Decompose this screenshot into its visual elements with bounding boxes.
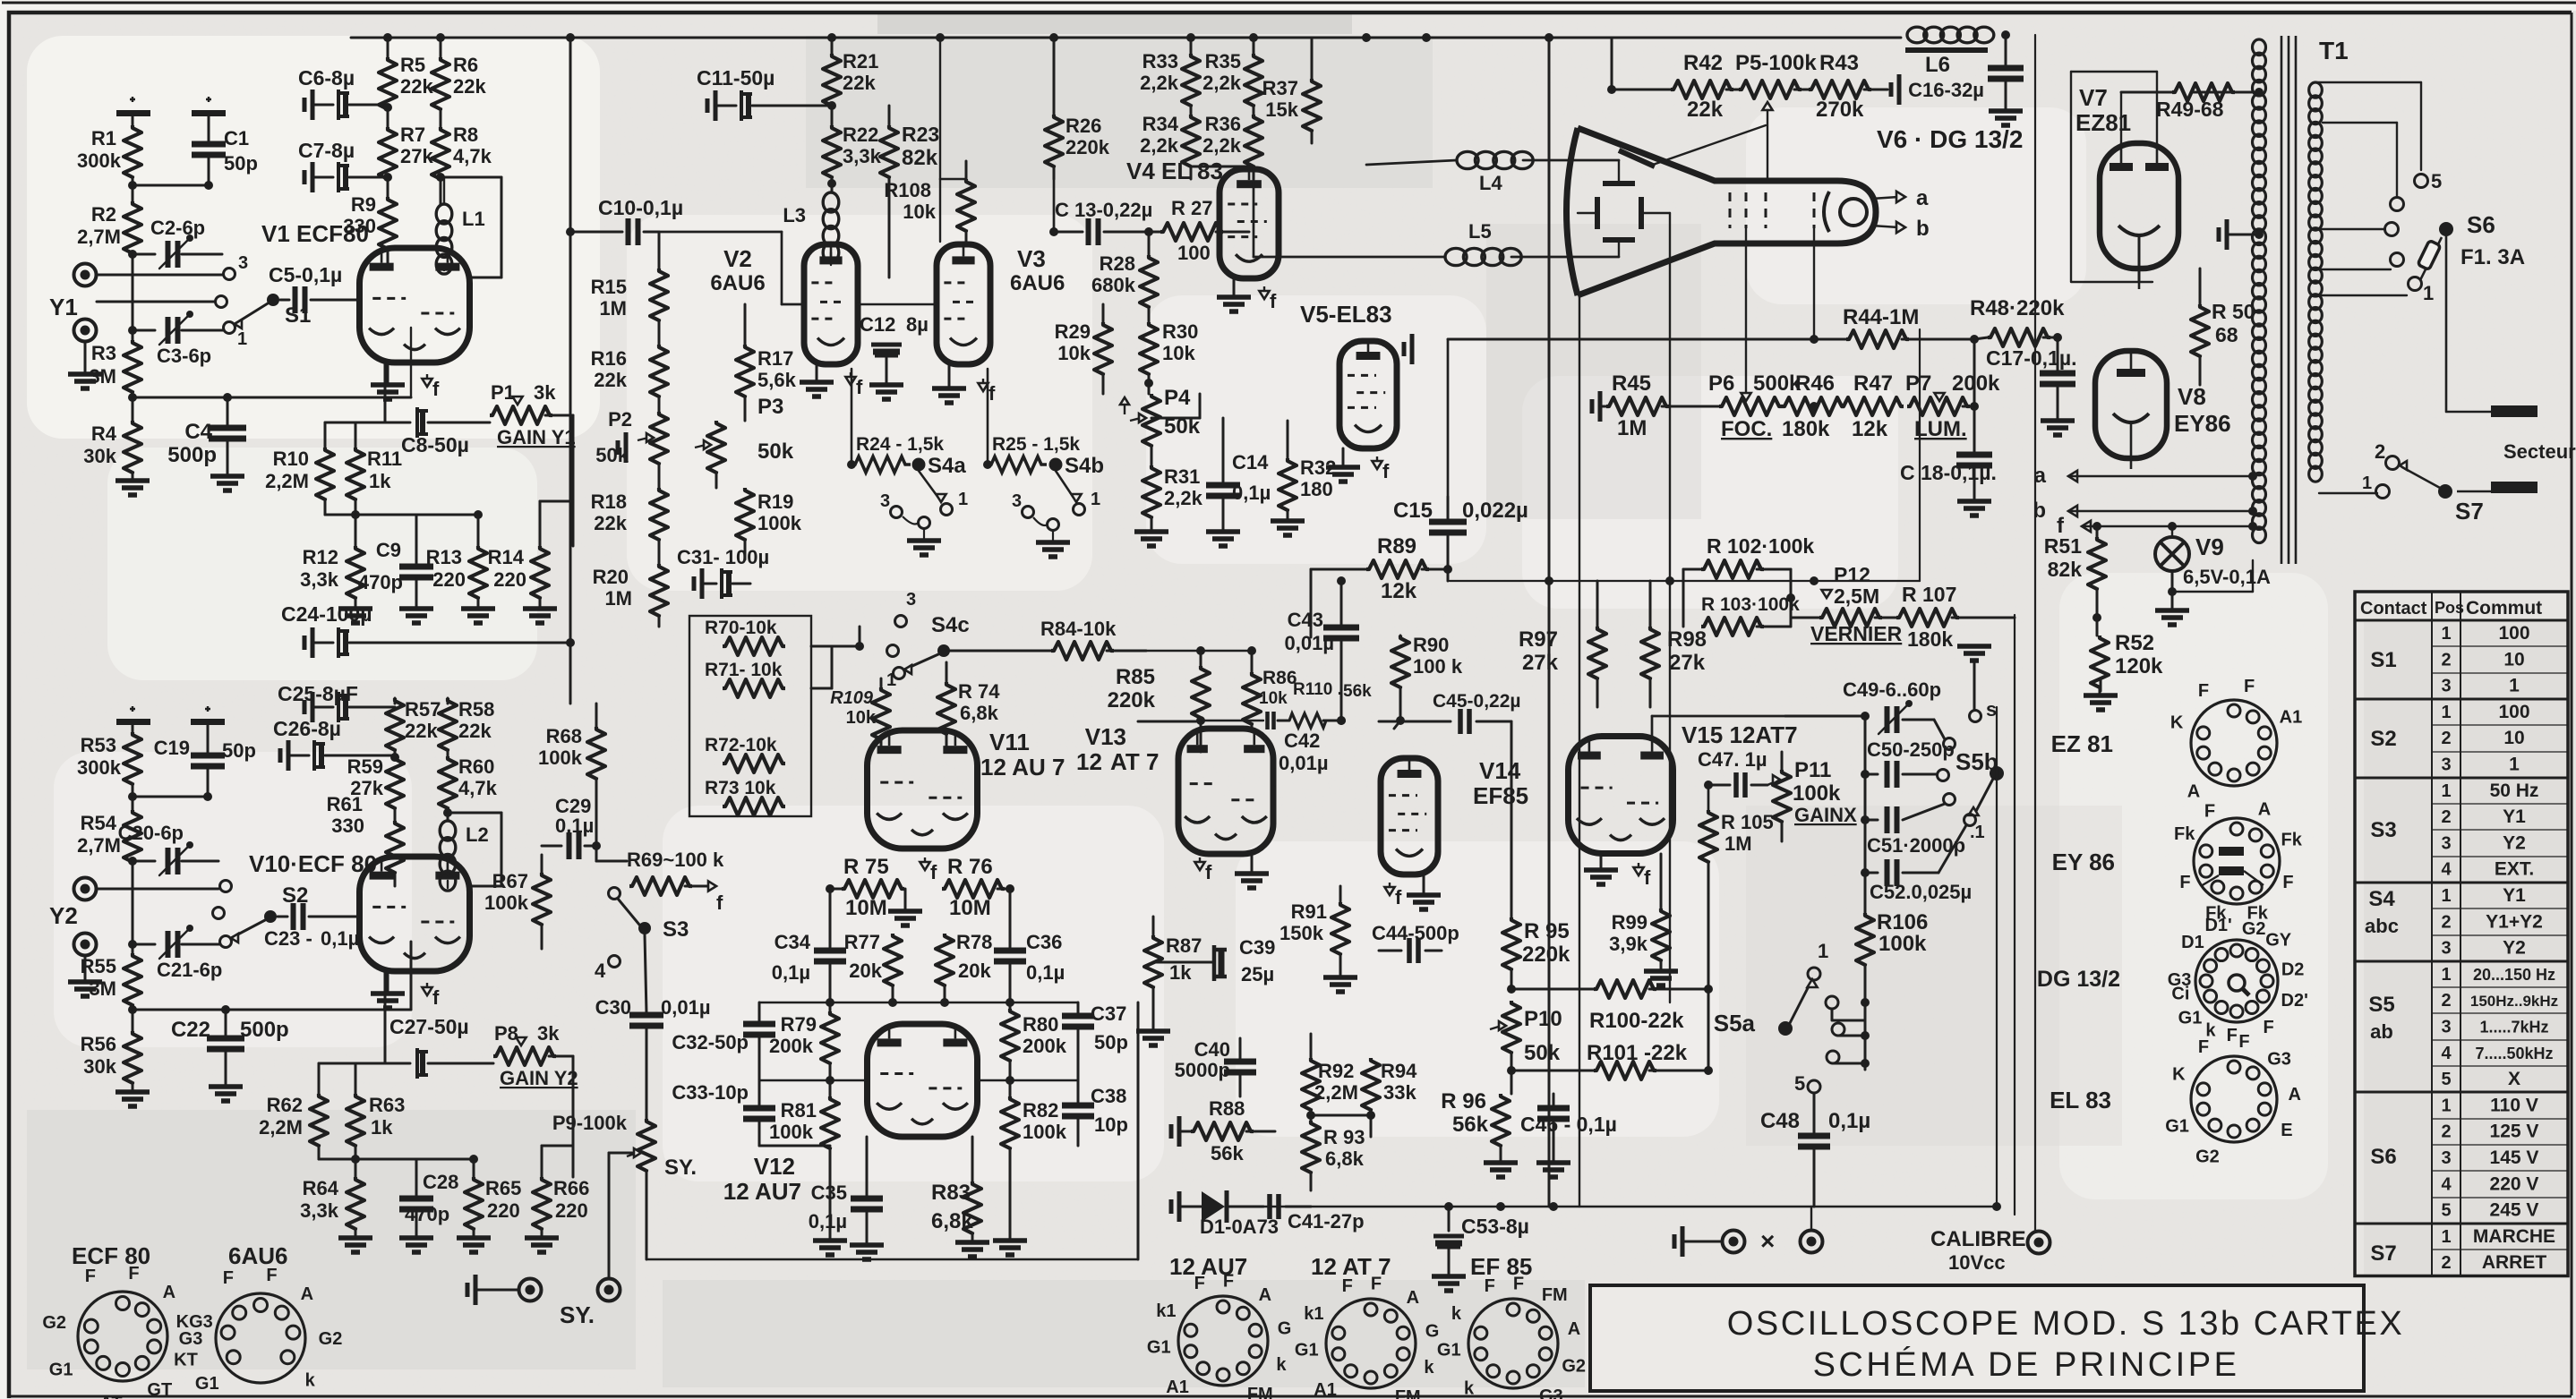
svg-text:100k: 100k: [769, 1121, 814, 1143]
ground V13: [1235, 854, 1269, 888]
svg-text:A: A: [2258, 800, 2271, 820]
svg-text:1: 1: [2362, 473, 2372, 493]
svg-text:R90: R90: [1413, 634, 1449, 656]
ground C4: [210, 476, 244, 491]
svg-text:3: 3: [2441, 755, 2451, 775]
svg-text:0,01µ: 0,01µ: [1279, 752, 1329, 774]
svg-text:C3-6p: C3-6p: [157, 345, 211, 367]
resistor R65 220: [465, 1177, 521, 1236]
svg-text:R17: R17: [757, 347, 793, 370]
capacitor C8 50µ: [385, 407, 490, 456]
node a feed: [2034, 464, 2251, 488]
svg-text:33k: 33k: [1383, 1081, 1416, 1104]
V10 heater arrow f: [426, 983, 428, 990]
svg-text:82k: 82k: [902, 146, 938, 170]
svg-text:G1: G1: [2178, 1009, 2203, 1028]
ground V15: [1584, 854, 1618, 884]
capacitor C32 50p: [672, 1002, 775, 1080]
svg-text:R33: R33: [1143, 50, 1178, 73]
capacitor C52 0,025µ: [1865, 825, 1972, 903]
svg-text:k: k: [1424, 1358, 1434, 1378]
resistor R50 68: [2191, 269, 2255, 385]
capacitor C19 50p: [154, 737, 256, 801]
resistor R44 1M: [1448, 305, 1974, 348]
capacitor C49 6..60p variable: [1843, 678, 1956, 750]
svg-text:1.....7kHz: 1.....7kHz: [2479, 1019, 2548, 1036]
svg-text:C16-32µ: C16-32µ: [1908, 79, 1984, 101]
capacitor C12 8µ: [860, 313, 929, 355]
svg-text:S7: S7: [2455, 498, 2484, 525]
svg-text:f: f: [432, 378, 440, 400]
svg-text:Fk: Fk: [2281, 830, 2303, 849]
svg-text:f: f: [716, 891, 723, 914]
capacitor C22 500p: [171, 1010, 289, 1085]
svg-text:1: 1: [2441, 703, 2451, 722]
svg-text:2: 2: [2441, 912, 2451, 932]
svg-text:R57: R57: [405, 698, 441, 721]
svg-text:V7: V7: [2079, 84, 2108, 111]
svg-text:R81: R81: [781, 1099, 817, 1122]
resistor R56 30k: [81, 1031, 141, 1090]
resistor R88 56k: [1171, 1097, 1275, 1164]
V4 heater f: [1263, 286, 1265, 294]
svg-text:D1-0A73: D1-0A73: [1200, 1216, 1279, 1238]
svg-text:L2: L2: [466, 823, 489, 846]
resistor R7 27k: [379, 124, 433, 197]
svg-text:R28: R28: [1100, 252, 1135, 275]
svg-text:1: 1: [2509, 755, 2520, 775]
svg-text:82k: 82k: [2048, 558, 2083, 581]
wire R44 to C17 C18 column: [1973, 339, 1976, 453]
mains plug bar bottom: [2491, 482, 2537, 493]
svg-text:G3: G3: [2267, 1049, 2291, 1069]
ground R82: [993, 1241, 1027, 1255]
svg-text:3,3k: 3,3k: [300, 1199, 339, 1222]
wire 6.3V winding return: [2172, 591, 2253, 593]
ground V3: [932, 364, 966, 403]
svg-text:R68: R68: [546, 725, 582, 747]
svg-text:G1: G1: [2165, 1117, 2189, 1137]
svg-text:Y2: Y2: [2503, 938, 2526, 959]
ground C53: [1432, 1276, 1466, 1291]
svg-text:3M: 3M: [89, 365, 116, 388]
svg-text:1: 1: [2441, 886, 2451, 906]
resistor R90 100k: [1391, 634, 1463, 729]
light scan patches: [27, 36, 2328, 1199]
ground C35: [850, 1245, 884, 1259]
svg-text:50p: 50p: [222, 739, 256, 762]
resistor R46 180k: [1782, 371, 1844, 441]
wire V1 cathode down: [384, 363, 387, 422]
svg-text:R 107: R 107: [1902, 583, 1956, 606]
svg-text:Fk: Fk: [2174, 824, 2195, 844]
svg-text:k: k: [305, 1370, 316, 1390]
contact 1 of S2: [220, 936, 232, 948]
contact 3 of S4b: [1012, 491, 1034, 518]
svg-text:G1: G1: [49, 1361, 73, 1380]
svg-text:0,1µ: 0,1µ: [555, 815, 594, 837]
svg-text:2: 2: [2441, 807, 2451, 827]
svg-text:R46: R46: [1795, 371, 1835, 396]
svg-text:AT: AT: [99, 1394, 122, 1399]
ground C14: [1206, 532, 1240, 546]
wire R44 row to C15: [1447, 339, 1450, 499]
ground R99: [1644, 971, 1678, 985]
ground C17: [2041, 421, 2075, 435]
svg-text:P3: P3: [757, 395, 783, 419]
svg-text:10k: 10k: [1162, 342, 1195, 364]
potentiometer P10 50k: [1490, 1001, 1562, 1094]
svg-text:G3: G3: [1539, 1386, 1563, 1399]
wire V10 cathode down: [384, 971, 387, 1063]
wire V3 cathode drop to R25: [987, 369, 989, 465]
resistor R67 100k: [484, 855, 551, 949]
svg-text:G3: G3: [179, 1329, 203, 1349]
svg-text:10: 10: [2503, 728, 2524, 748]
inductor L5: [1254, 166, 1619, 266]
svg-text:F: F: [2198, 681, 2209, 701]
svg-text:R 27: R 27: [1171, 197, 1212, 219]
svg-text:X: X: [2508, 1069, 2520, 1089]
svg-text:R9: R9: [351, 193, 376, 216]
svg-text:GT: GT: [147, 1380, 172, 1399]
svg-text:R22: R22: [843, 124, 878, 146]
capacitor C4 500p: [167, 397, 246, 474]
svg-text:3,9k: 3,9k: [1609, 933, 1648, 955]
svg-text:2: 2: [2441, 1122, 2451, 1142]
svg-text:6AU6: 6AU6: [710, 271, 765, 295]
svg-text:C9: C9: [376, 539, 401, 561]
svg-text:10p: 10p: [1094, 1113, 1128, 1136]
svg-text:110 V: 110 V: [2490, 1095, 2538, 1115]
capacitor C3 6p variable: [128, 311, 223, 367]
svg-text:R32: R32: [1300, 456, 1336, 479]
svg-text:S4c: S4c: [931, 613, 970, 637]
svg-text:10k: 10k: [1259, 689, 1288, 708]
wire long vertical x1764 bell: [1579, 295, 1580, 1207]
svg-text:L1: L1: [462, 208, 485, 230]
capacitor X input: [1674, 1226, 1721, 1257]
wire V7 box: [2071, 72, 2152, 282]
tube V8 EY86: [2095, 351, 2231, 469]
svg-text:R43: R43: [1819, 51, 1859, 75]
svg-text:R72-10k: R72-10k: [705, 735, 777, 755]
svg-text:A: A: [1407, 1288, 1419, 1308]
svg-text:C4: C4: [184, 420, 212, 444]
svg-text:3: 3: [2441, 1018, 2451, 1037]
svg-text:22k: 22k: [458, 720, 492, 742]
svg-text:S3: S3: [663, 917, 689, 942]
capacitor C26 8µ: [273, 717, 399, 771]
wire S6 to mains: [2446, 236, 2491, 412]
resistor R29 10k: [1055, 304, 1112, 394]
wire long vertical x1865 deflection: [1669, 213, 1671, 1002]
svg-text:2,7M: 2,7M: [77, 834, 121, 857]
svg-text:50p: 50p: [224, 152, 258, 175]
svg-text:R 50: R 50: [2212, 300, 2255, 323]
svg-text:R7: R7: [400, 124, 425, 146]
svg-text:VERNIER: VERNIER: [1810, 622, 1903, 645]
resistor R1 300k: [77, 125, 141, 201]
svg-text:0,1µ: 0,1µ: [1232, 482, 1271, 504]
socket diagram 6AU6: [179, 1242, 343, 1394]
svg-text:30k: 30k: [83, 1055, 116, 1078]
ground S5b top: [1957, 646, 1991, 710]
ground R13: [461, 609, 495, 623]
svg-text:12k: 12k: [1381, 579, 1417, 603]
node b feed: [2033, 499, 2251, 523]
svg-text:2: 2: [2441, 729, 2451, 748]
svg-text:k: k: [1276, 1355, 1287, 1375]
contact S circle: [1970, 698, 1998, 722]
table rows S6: [2370, 1095, 2538, 1220]
svg-text:P5-100k: P5-100k: [1735, 51, 1817, 75]
svg-text:R101 -22k: R101 -22k: [1587, 1041, 1688, 1065]
resistor R81 100k: [769, 1096, 839, 1239]
ground R66: [525, 1238, 559, 1252]
svg-text:2,5M: 2,5M: [1834, 584, 1879, 608]
svg-text:Y1+Y2: Y1+Y2: [2486, 911, 2543, 932]
T1 primary taps: [2315, 82, 2442, 304]
contact mid of S2: [213, 908, 225, 919]
contact 3 of S4c: [895, 590, 917, 627]
terminal external sync: [598, 1153, 633, 1301]
svg-text:R80: R80: [1023, 1013, 1058, 1036]
svg-text:2,2k: 2,2k: [1140, 72, 1179, 94]
resistor R93 6,8k: [1302, 1121, 1365, 1190]
V13 heater f: [1199, 857, 1201, 865]
svg-text:R110 .: R110 .: [1293, 680, 1342, 699]
node R3/R4: [128, 393, 137, 402]
resistor R21 22k: [823, 38, 878, 125]
socket diagram EY86: [2052, 800, 2303, 924]
svg-text:P6: P6: [1708, 371, 1734, 396]
resistor R91 150k: [1279, 886, 1349, 976]
svg-text:F: F: [2227, 1026, 2238, 1045]
svg-text:270k: 270k: [1816, 98, 1864, 122]
ground C22: [209, 1087, 243, 1101]
capacitor C20 6p variable: [118, 822, 218, 875]
svg-text:G2: G2: [2195, 1147, 2220, 1166]
potentiometer P2 50k: [595, 408, 668, 488]
V2 heater f: [850, 372, 852, 380]
ground R14: [523, 609, 557, 623]
svg-text:R87: R87: [1166, 934, 1202, 957]
resistor R72 10k: [705, 735, 785, 772]
svg-text:2,7M: 2,7M: [77, 226, 121, 248]
capacitor C7 8µ bypass: [298, 139, 388, 192]
svg-text:22k: 22k: [594, 512, 627, 534]
svg-text:R20: R20: [593, 566, 629, 588]
svg-text:V6 · DG 13/2: V6 · DG 13/2: [1877, 125, 2023, 153]
switch S5a: [1714, 979, 1818, 1036]
svg-text:R44-1M: R44-1M: [1843, 305, 1919, 329]
svg-text:145 V: 145 V: [2490, 1147, 2539, 1168]
ground S4a: [907, 529, 941, 555]
svg-text:MARCHE: MARCHE: [2473, 1226, 2555, 1247]
svg-text:R29: R29: [1055, 320, 1091, 343]
capacitor C5 0,1µ: [269, 263, 360, 313]
svg-text:R19: R19: [757, 491, 793, 513]
svg-text:0,022µ: 0,022µ: [1462, 499, 1528, 523]
svg-text:R 95: R 95: [1524, 919, 1570, 943]
potentiometer P11 100k GAINX: [1767, 752, 1857, 841]
svg-text:C48: C48: [1760, 1109, 1800, 1133]
socket diagram EF85: [1437, 1253, 1586, 1399]
capacitor C1 50p: [192, 127, 258, 190]
svg-text:100: 100: [2498, 702, 2529, 722]
svg-text:220: 220: [432, 568, 466, 591]
svg-text:R56: R56: [81, 1033, 116, 1055]
ground V14: [1407, 874, 1441, 909]
ground R65: [457, 1238, 491, 1252]
capacitor C46 0,1µ: [1520, 1094, 1617, 1161]
resistor R42 22k: [1607, 38, 1733, 122]
svg-text:6AU6: 6AU6: [228, 1242, 287, 1269]
resistor R45 1M: [1592, 371, 1719, 440]
svg-text:R25 - 1,5k: R25 - 1,5k: [992, 434, 1080, 455]
svg-text:R16: R16: [591, 347, 627, 370]
svg-text:R65: R65: [485, 1177, 521, 1199]
svg-text:68: 68: [2215, 323, 2238, 346]
svg-text:R13: R13: [426, 546, 462, 568]
potentiometer P7 200k LUM: [1905, 371, 2000, 441]
switch S3: [609, 888, 689, 943]
svg-text:10: 10: [2503, 649, 2524, 670]
capacitor C16 32µ: [1908, 35, 2024, 109]
svg-text:R30: R30: [1162, 320, 1198, 343]
tube V5 EL83: [1300, 301, 1397, 448]
svg-text:EY 86: EY 86: [2052, 849, 2115, 875]
capacitor C42 0,01µ: [1196, 712, 1329, 774]
capacitor SY coupling: [467, 1275, 519, 1305]
node R11/R12 wire to C9 R13: [355, 514, 478, 516]
svg-text:S5: S5: [2368, 993, 2394, 1017]
svg-text:P2: P2: [608, 408, 632, 431]
svg-text:GAIN Y1: GAIN Y1: [497, 426, 576, 448]
svg-text:R11: R11: [367, 448, 402, 470]
svg-text:5: 5: [2441, 1201, 2451, 1221]
svg-text:R45: R45: [1612, 371, 1651, 396]
svg-text:56k: 56k: [1452, 1113, 1489, 1137]
wire C45 row: [1379, 691, 1521, 734]
svg-text:A1: A1: [1314, 1380, 1337, 1399]
resistor R55 3M: [81, 953, 141, 1031]
ground V4: [1217, 278, 1251, 311]
tube V4 EL83: [1126, 158, 1279, 278]
svg-text:2: 2: [2441, 991, 2451, 1011]
resistor R86 10k: [1243, 651, 1297, 729]
resistor R15 1M: [591, 232, 668, 345]
capacitor C35 0,1µ: [809, 1137, 883, 1243]
resistor R59 27k: [347, 755, 404, 821]
svg-text:R67: R67: [492, 870, 528, 892]
wire R3 bottom to C4: [133, 397, 411, 399]
svg-text:22k: 22k: [843, 72, 876, 94]
svg-text:R5: R5: [400, 54, 425, 76]
svg-text:R94: R94: [1381, 1060, 1417, 1082]
svg-text:R52: R52: [2115, 631, 2154, 655]
svg-text:ARRET: ARRET: [2482, 1252, 2547, 1273]
contact 4 of S3: [595, 956, 620, 983]
svg-text:1: 1: [237, 329, 247, 349]
svg-text:1M: 1M: [599, 297, 627, 320]
svg-text:0,01µ: 0,01µ: [661, 996, 711, 1019]
capacitor C30 0,01µ: [595, 934, 711, 1065]
svg-text:f: f: [1382, 460, 1390, 482]
resistor R79 200k: [769, 1002, 839, 1096]
inductor L1: [436, 177, 484, 274]
svg-text:EL 83: EL 83: [2050, 1087, 2111, 1113]
svg-text:T1: T1: [2319, 37, 2349, 64]
svg-text:R10: R10: [273, 448, 309, 470]
svg-text:100 k: 100 k: [1413, 655, 1463, 678]
svg-text:D2: D2: [2281, 960, 2305, 980]
resistor R85 220k: [1108, 651, 1210, 729]
wire grid to R44: [1813, 228, 1815, 339]
svg-text:1M: 1M: [604, 587, 632, 610]
capacitor C23 0,1µ: [264, 903, 360, 950]
svg-text:2,2M: 2,2M: [259, 1116, 303, 1139]
svg-text:C31- 100µ: C31- 100µ: [677, 546, 769, 568]
node f feed: [2057, 514, 2251, 538]
capacitor C2 6p variable: [133, 217, 222, 269]
node a output: [1871, 186, 1929, 210]
resistor R95 220k: [1502, 895, 1570, 994]
svg-text:R51: R51: [2044, 534, 2082, 558]
svg-text:S1: S1: [2370, 648, 2396, 672]
svg-text:C45-0,22µ: C45-0,22µ: [1433, 691, 1521, 712]
svg-text:P12: P12: [1834, 563, 1870, 586]
resistor R22 3,3k: [823, 124, 882, 192]
svg-text:R4: R4: [91, 422, 117, 445]
svg-text:22k: 22k: [594, 369, 627, 391]
svg-text:R36: R36: [1205, 113, 1241, 135]
svg-text:b: b: [1916, 217, 1930, 241]
svg-text:C6-8µ: C6-8µ: [298, 66, 355, 90]
wire grid to FOC: [1745, 228, 1747, 397]
svg-text:G2: G2: [319, 1329, 343, 1349]
terminal Y2 input a: [74, 878, 219, 900]
capacitor C17 0,1µ: [1986, 346, 2076, 419]
svg-text:R21: R21: [843, 50, 878, 73]
resistor R16 22k: [591, 345, 668, 412]
svg-text:f: f: [1270, 290, 1277, 312]
T1 secondary taps: [2192, 88, 2264, 531]
ground socket column: [2100, 680, 2102, 691]
svg-text:20k: 20k: [849, 960, 882, 982]
svg-text:V2: V2: [723, 245, 752, 272]
svg-text:ECF 80: ECF 80: [72, 1242, 150, 1269]
resistor R77 20k: [844, 931, 902, 1002]
capacitor C25 8µF: [278, 682, 395, 722]
resistor R83 6,8k: [931, 1137, 981, 1241]
svg-text:120k: 120k: [2115, 654, 2163, 678]
resistor R57 22k: [386, 698, 441, 756]
svg-text:f: f: [1205, 861, 1212, 883]
V14 heater f: [1389, 883, 1391, 890]
svg-text:EZ 81: EZ 81: [2051, 730, 2113, 757]
tube V15 12AT7: [1569, 721, 1798, 854]
svg-text:R23: R23: [902, 123, 939, 146]
svg-text:C5-0,1µ: C5-0,1µ: [269, 263, 342, 286]
svg-text:R6: R6: [453, 54, 478, 76]
svg-text:20k: 20k: [958, 960, 991, 982]
svg-text:CALIBRE: CALIBRE: [1930, 1227, 2026, 1251]
resistor R27 100: [1160, 197, 1249, 264]
wire bottom bus: [1257, 1206, 1814, 1207]
wire node to C19: [133, 796, 208, 798]
